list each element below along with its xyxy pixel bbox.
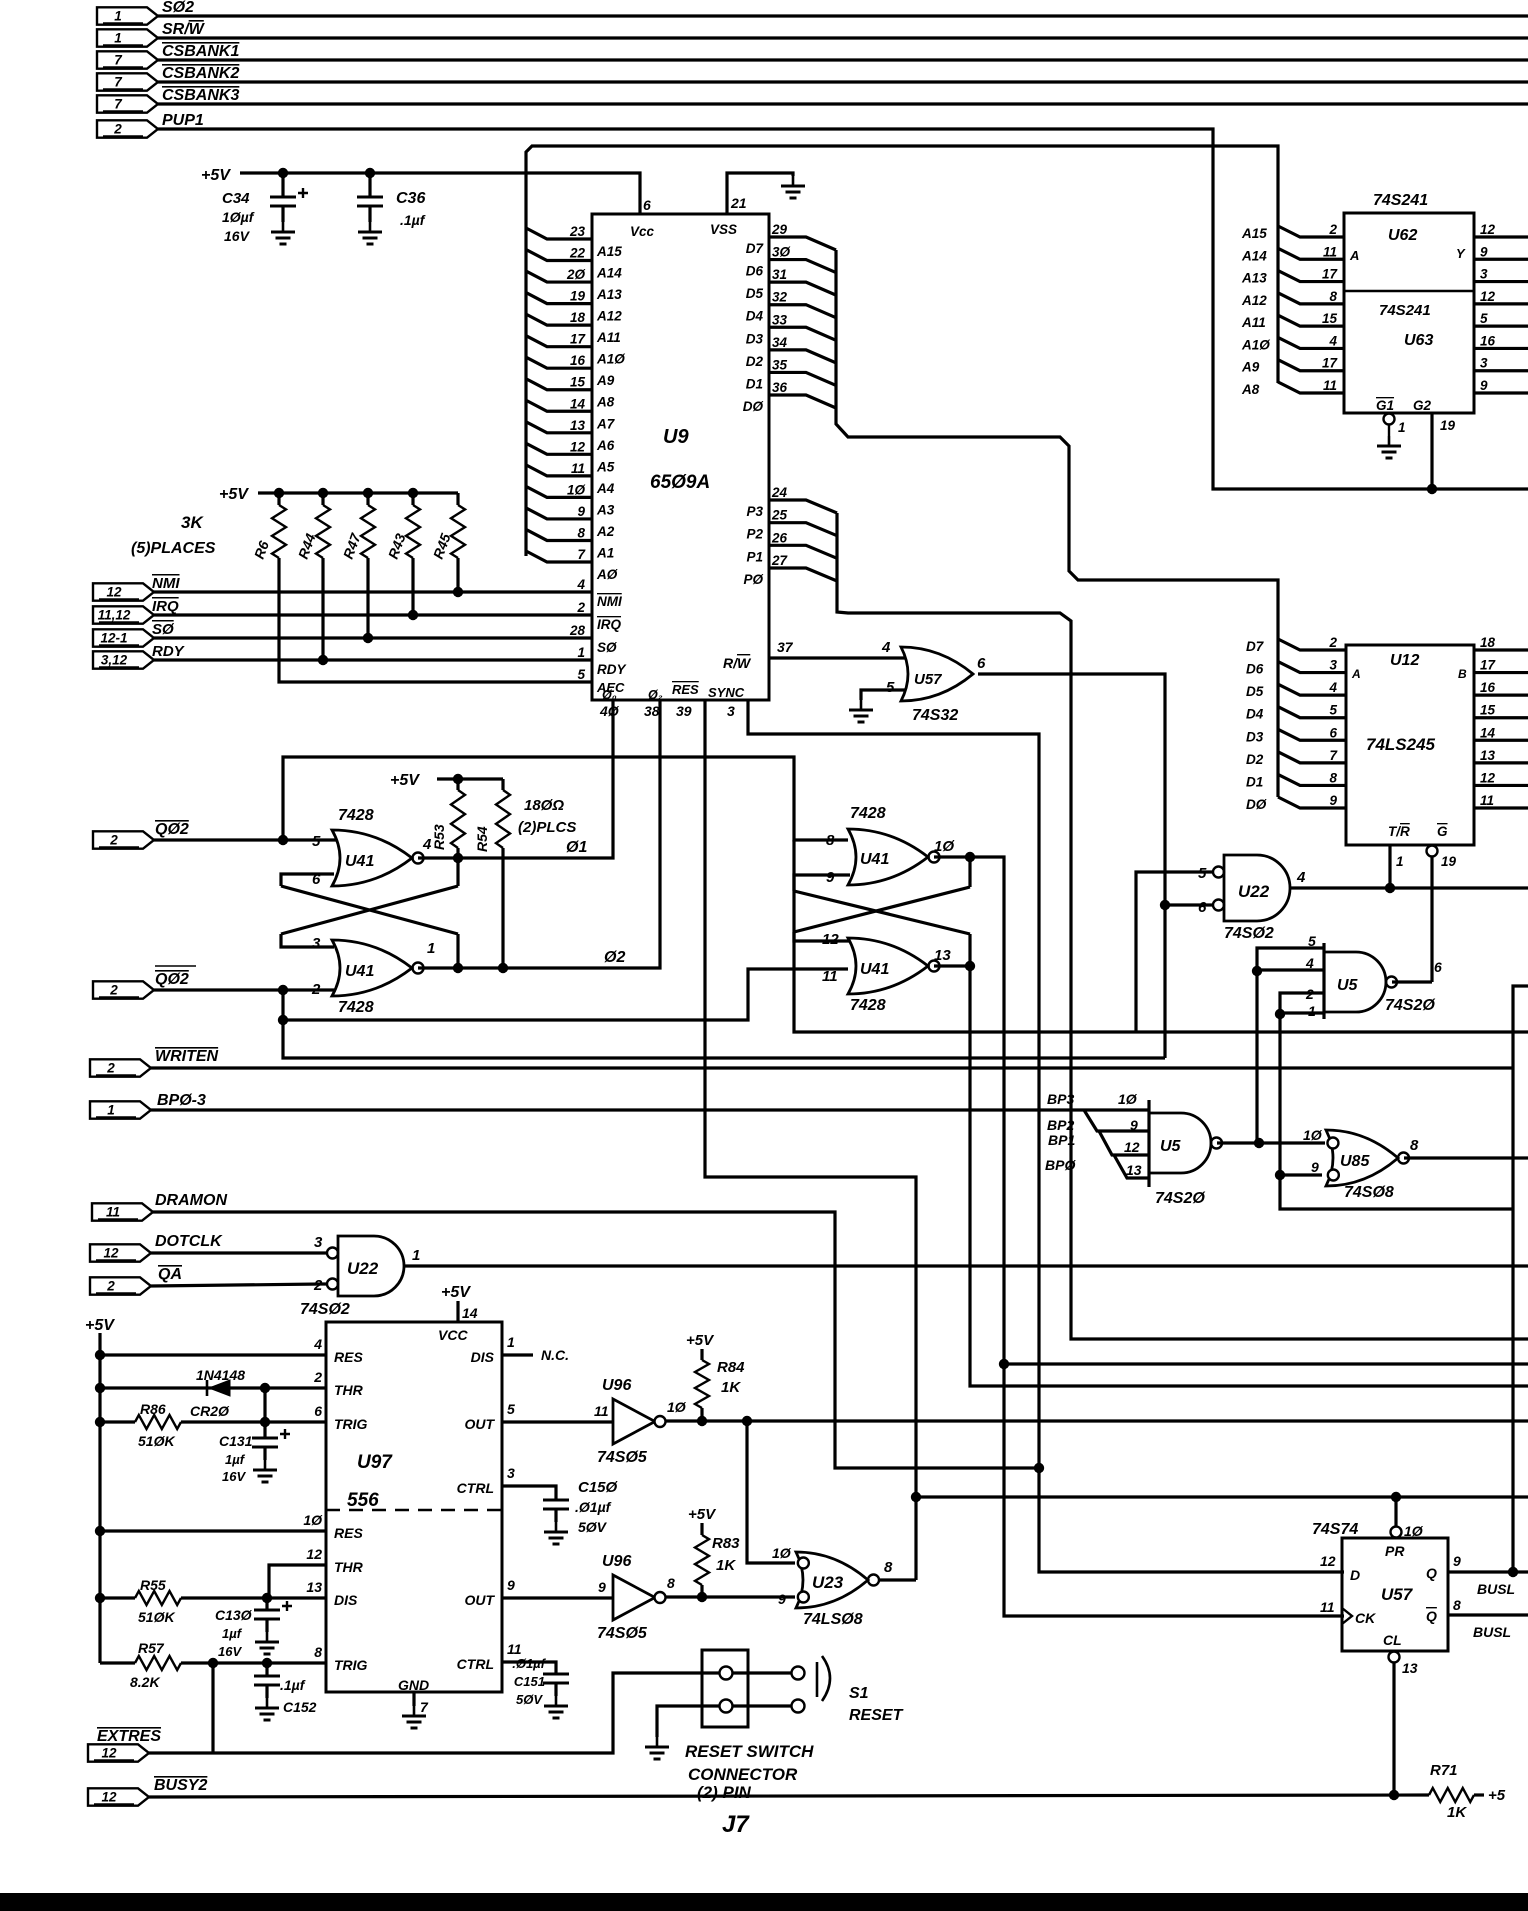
wire THR12 jog [269,1565,326,1598]
svg-text:D3: D3 [746,331,764,346]
svg-text:A14: A14 [596,266,622,281]
connector flag QO2bar [93,981,154,998]
wire C151 gnd stem [554,1683,557,1696]
connector flag DOTCLK [90,1244,151,1261]
NOR gate U41d 7428 [848,938,940,994]
ground below C36 [358,222,382,244]
svg-text:BP1: BP1 [1048,1132,1075,1148]
net label QA [158,1266,182,1283]
net label NMI ctl [152,575,180,592]
wire U62/U63 input A8 pin 11 [1278,382,1344,393]
net label PUP1 [162,112,204,129]
IC U22a refdes [1238,882,1270,901]
svg-text:8: 8 [1329,770,1337,785]
pin name A3 [596,502,615,517]
pin name A2 [596,524,615,539]
junction QO2bar feedback [278,985,288,995]
svg-text:5ØV: 5ØV [578,1519,608,1535]
page edge bar [0,1893,1528,1911]
gate label 74S05 b [597,1625,648,1642]
wire U62/U63 input A1Ø pin 4 [1278,337,1344,348]
svg-text:+5V: +5V [688,1506,717,1523]
resistor R57 8.2K [135,1656,181,1670]
svg-text:U96: U96 [602,1377,631,1394]
wire QO2 feedback to U41c pin8 [283,757,848,840]
wire DIS13 line b [181,1596,326,1599]
wire QA to U22 pin2 [151,1284,328,1286]
svg-text:U57: U57 [1381,1585,1414,1604]
net label BP3 [1047,1091,1074,1107]
pin number 5 556r [507,1401,515,1417]
wire R6 top stub [277,493,280,505]
divider U62/U63 [1344,290,1474,293]
wire RES pin39 route [705,700,916,1580]
IC U5b refdes [1160,1138,1182,1155]
wire QO2bar to U41b pin2 [154,988,336,991]
svg-text:1Ø: 1Ø [1118,1091,1138,1107]
svg-text:NMI: NMI [597,594,622,609]
junction R44/RDY [318,655,328,665]
svg-text:5: 5 [1480,311,1488,326]
IC label 556 [347,1490,379,1511]
net label SØ ctl [152,621,175,638]
svg-text:Y: Y [1456,246,1466,261]
pin number 10 U23 [772,1545,792,1561]
pin number 31 [772,267,787,282]
pin number 9 [826,869,835,886]
wire C36 stem [368,173,371,197]
pin name TRIG 556 [334,1416,368,1432]
wire U9 data bus to U12 [836,250,1278,797]
svg-text:A1: A1 [596,545,614,560]
wire U12 output pin 15 [1474,716,1528,719]
ground C150 [544,1522,568,1544]
label R71 [1430,1762,1458,1779]
wire +5V rail left [98,1333,101,1663]
svg-text:9: 9 [598,1579,606,1595]
svg-text:Q: Q [1426,1565,1437,1581]
junction R45/NMI [453,587,463,597]
svg-text:7428: 7428 [338,807,374,824]
IC label 74LS245 [1366,735,1436,754]
svg-text:+5V: +5V [201,167,231,184]
svg-text:5: 5 [1329,703,1337,718]
net label QO2bar [155,966,196,988]
pin number 12 556 [306,1546,322,1562]
wire TRIG8 line b [181,1661,326,1664]
NOR gate U22a 74S02 [1213,855,1290,921]
capacitor C130 1uf 16V [254,1601,292,1619]
net label IRQ ctl [152,598,179,615]
svg-text:G: G [1437,824,1448,839]
svg-text:16V: 16V [218,1644,242,1659]
svg-text:SR/W: SR/W [162,21,206,38]
label R57 [138,1640,165,1656]
pin name AEC [596,680,625,695]
IC U23 refdes [812,1573,844,1592]
gate label 74S20 b [1155,1190,1205,1207]
svg-text:8.2K: 8.2K [130,1674,160,1690]
net label BUSY2 [154,1777,207,1794]
net label CSBANK2 [162,65,239,82]
svg-text:6: 6 [977,655,986,672]
pin name P2 [746,527,763,542]
pin number 4 556 [313,1336,322,1352]
net label A14 [1241,248,1267,263]
wire +5V pullup rail [258,491,458,494]
power label +5V R84 [686,1332,715,1349]
svg-text:C36: C36 [396,190,425,207]
wire U9 address bus vertical and top run to U62 [526,146,1278,556]
switch terminal bottom [792,1700,805,1713]
pin number 14 [462,1305,478,1321]
net label RDY ctl [152,643,186,660]
pin name RES 556 [334,1349,363,1365]
junction U22 in6 [1160,900,1170,910]
svg-text:S1: S1 [849,1685,869,1702]
label R71 1K [1447,1804,1467,1821]
net label A11 [1241,315,1266,330]
pin number 10 PR [1404,1523,1424,1539]
wire U41a output phi1 [418,700,613,858]
net label BUSL [1477,1581,1515,1597]
gate label 7428 lower [338,999,374,1016]
svg-text:32: 32 [772,290,788,305]
svg-text:A15: A15 [596,244,622,259]
pin name SØ [597,640,617,655]
svg-text:33: 33 [772,312,788,327]
ground at U57 pin5 [849,700,873,722]
NOR gate U41c 7428 [848,829,940,885]
svg-text:D2: D2 [1246,752,1264,767]
svg-text:OUT: OUT [464,1592,495,1608]
svg-text:1Ø: 1Ø [567,482,586,497]
svg-text:J7: J7 [722,1811,750,1838]
pin number 11 ck [1320,1599,1335,1615]
svg-text:3: 3 [1329,658,1337,673]
U12 G pin 19 bubble [1427,846,1438,857]
wire U9 pin 2Ø A13 [526,271,592,282]
connector flag SØ2 (sheet 1) [97,7,158,24]
pin number 34 [772,335,788,350]
svg-text:P3: P3 [746,504,763,519]
gate label 74S02 a [1224,925,1274,942]
pin number 5 [1329,703,1337,718]
svg-text:CSBANK2: CSBANK2 [162,65,239,82]
junction C34 [278,168,288,178]
svg-text:U5: U5 [1337,977,1359,994]
svg-text:Ø2: Ø2 [604,949,625,966]
wire pins45 down to U5b out [1255,971,1258,1143]
pin number 2 [1328,635,1337,650]
pin number 11 [1323,378,1337,393]
wire DOTCLK to U22 pin3 [151,1251,328,1254]
port label B U12 [1458,667,1467,681]
label 2 PIN [697,1783,752,1802]
IC label 74S241 lower [1379,302,1431,319]
pin number 2 556 [313,1369,322,1385]
pin number 16 [1480,333,1496,348]
svg-text:6: 6 [643,197,651,213]
label C34 value [222,209,255,225]
resistor R43 3K [406,505,420,558]
wire U62/U63 output pin 16 [1474,347,1528,350]
IC U41b refdes [345,963,374,980]
connector pin bottom [720,1700,733,1713]
label R54 [474,826,490,852]
power label +5V R83 [688,1506,717,1523]
IC U96a refdes [602,1377,631,1394]
svg-text:8: 8 [1329,289,1337,304]
svg-text:74S74: 74S74 [1312,1521,1358,1538]
svg-text:74S2Ø: 74S2Ø [1155,1190,1205,1207]
pin number 14 [570,396,586,411]
net label QO2 [155,821,189,838]
pin number 16 [570,353,586,368]
svg-text:6: 6 [1198,899,1207,916]
wire U9 pin 23 A15 [526,228,592,239]
svg-text:P2: P2 [746,527,763,542]
junction U23 feed [742,1416,752,1426]
wire U12 input D1 pin 8 [1278,774,1346,785]
net label A1Ø [1241,337,1270,352]
svg-text:13: 13 [1480,748,1496,763]
svg-text:1Øµf: 1Øµf [222,209,255,225]
svg-text:QA: QA [158,1266,182,1283]
label R83 [712,1535,740,1552]
junction G2/PUP1 [1427,484,1437,494]
svg-text:1K: 1K [1447,1804,1467,1821]
label C36 [396,190,425,207]
connector flag QO2 [93,831,154,848]
svg-text:18: 18 [570,310,586,325]
junction rail RES4 [95,1350,105,1360]
wire U9 pin 22 A14 [526,250,592,261]
pin number 6 556 [314,1403,322,1419]
svg-text:1Ø: 1Ø [667,1399,687,1415]
label .1uf [280,1677,306,1693]
svg-text:(2)PLCS: (2)PLCS [518,819,576,836]
svg-text:B: B [1458,667,1467,681]
svg-text:17: 17 [1480,658,1497,673]
wire R71 to +5 [1474,1793,1484,1796]
svg-text:QØ2: QØ2 [155,971,189,988]
svg-text:WRITEN: WRITEN [155,1048,219,1065]
svg-text:A6: A6 [596,438,615,453]
svg-text:P1: P1 [746,549,763,564]
svg-text:8: 8 [1410,1137,1419,1154]
wire U5b output [1217,1141,1325,1144]
wire U41b pin3 stub [281,934,334,947]
wire U9 pin 26 P1 [769,545,837,558]
wire QO2bar branch to U41d pin11 [283,969,848,1020]
capacitor C131 1uf 16V [252,1429,290,1447]
pin number 4 [1328,680,1337,695]
pin number 11 [822,968,838,985]
wire C131 vert [263,1388,266,1422]
wire RDY to U9 [154,658,592,661]
junction y1497 [911,1492,921,1502]
label J7 [722,1811,750,1838]
junction Q net [1508,1567,1518,1577]
pin number 12 U5b [1124,1139,1140,1155]
wire U9 pin 17 A1Ø [526,336,592,347]
svg-text:1K: 1K [716,1557,736,1574]
IC U9 6509A body [592,214,769,700]
label 50V [578,1519,608,1535]
junction extres [208,1658,218,1668]
net label D3 [1246,729,1264,744]
label C130 16V [218,1644,242,1659]
wire THR2 line [100,1386,326,1389]
connector flag WRITEN [90,1059,151,1076]
svg-text:15: 15 [1322,311,1338,326]
svg-text:DØ: DØ [743,399,764,414]
wire QO2 to U41a pin5 [154,838,336,841]
svg-text:2: 2 [313,1369,322,1385]
svg-text:74S2Ø: 74S2Ø [1385,997,1435,1014]
svg-text:4: 4 [1296,869,1306,886]
wire CTRL11 to C151 [502,1662,556,1674]
pin number 12 [1480,770,1496,785]
svg-text:A13: A13 [596,287,622,302]
svg-text:3: 3 [507,1465,515,1481]
resistor R44 3K [316,505,330,558]
svg-text:4: 4 [313,1336,322,1352]
pin number 2 [1305,986,1314,1002]
wire U62/U63 output pin 12 [1474,235,1528,238]
pin name phi2 [648,688,663,702]
divider dashed 556 [326,1509,502,1512]
pin number 38 [644,703,660,719]
wire U12 output pin 16 [1474,694,1528,697]
wire pin bottom to switch [733,1704,791,1707]
net label BP0 [1045,1157,1076,1173]
svg-text:U85: U85 [1340,1153,1370,1170]
pin name VCC [438,1327,468,1343]
svg-text:19: 19 [570,289,586,304]
svg-text:8: 8 [1453,1597,1461,1613]
connector flag CSBANK3 (sheet 7) [97,95,158,112]
wire U62/U63 output pin 9 [1474,391,1528,394]
capacitor C151 .01uf 50V [543,1674,569,1683]
wire cross couple D [794,891,970,934]
svg-text:RES: RES [672,682,699,697]
pin number 8 556 [314,1644,322,1660]
wire U9 pin 9 A2 [526,508,592,519]
pin number 12 [822,931,839,948]
resistor R71 1K [1429,1788,1474,1802]
svg-text:16V: 16V [222,1469,246,1484]
pin name A15 [596,244,622,259]
svg-text:+5V: +5V [686,1332,715,1349]
pin number 33 [772,312,788,327]
pin number 12 [570,439,586,454]
wire pins12 down to U85 in9 [1280,1014,1513,1209]
pin number 23 [569,224,586,239]
pin name PØ [743,572,763,587]
svg-text:RDY: RDY [597,662,627,677]
wire Q out [1448,1570,1528,1573]
svg-text:14: 14 [1480,725,1496,740]
svg-text:3: 3 [312,935,321,952]
svg-text:4: 4 [1328,333,1337,348]
connector flag QA [90,1277,151,1294]
pin name D2 [746,354,764,369]
wire U12 input D5 pin 4 [1278,684,1346,695]
wire PUP1 to G2 net [158,129,1528,489]
svg-text:D7: D7 [746,241,765,256]
IC U85 refdes [1340,1153,1370,1170]
resistor R45 3K [451,505,465,558]
pin number 35 [772,357,788,372]
wire Vss to ground [727,173,793,214]
wire TRIG8 line a [100,1661,135,1664]
label R86 [140,1401,166,1417]
label C131 16V [222,1469,246,1484]
wire SR/W bus [158,36,1528,39]
svg-text:T/R: T/R [1388,824,1410,839]
wire U12 output pin 18 [1474,648,1528,651]
svg-text:12: 12 [1480,222,1496,237]
svg-text:4Ø: 4Ø [599,703,620,719]
wire R84 bottom [700,1408,703,1421]
svg-text:SYNC: SYNC [708,685,745,700]
IC U96b refdes [602,1553,631,1570]
wire U12 input D3 pin 6 [1278,729,1346,740]
label C131 [219,1433,253,1449]
svg-text:1: 1 [412,1247,420,1264]
svg-text:.Ø1µf: .Ø1µf [575,1499,612,1515]
wire C131 gnd stem [263,1447,266,1460]
svg-text:RDY: RDY [152,643,186,660]
wire U41c output [934,857,1344,1616]
pin number 6 [1329,725,1337,740]
pin name P3 [746,504,763,519]
svg-text:C15Ø: C15Ø [578,1479,619,1496]
pin name A4 [596,481,615,496]
pin number 10 inv [667,1399,687,1415]
svg-text:THR: THR [334,1382,364,1398]
net label SR/W [162,21,206,38]
pin name CTRL 556r [457,1656,494,1672]
ground 556 [402,1706,426,1728]
wire U12 input D2 pin 7 [1278,752,1346,763]
pin number 2 [311,981,321,998]
pin number 25 [771,508,788,523]
wire C131 stem [263,1422,266,1438]
label (5)PLACES [131,540,216,557]
pin number 13 [1402,1660,1418,1676]
power label +5V latch [390,772,420,789]
wire CL down [1392,1662,1395,1795]
wire U9 pin 1Ø A3 [526,486,592,497]
svg-text:+5V: +5V [219,486,249,503]
junction QO2 feedback [278,835,288,845]
pin number 40 [599,703,620,719]
pin number 5 [577,667,585,682]
pin number 27 [771,553,789,568]
wire U62/U63 input A12 pin 8 [1278,293,1344,304]
wire U12 G to U5 output [1430,856,1433,982]
svg-text:R86: R86 [140,1401,166,1417]
pin number 12 [1320,1553,1336,1569]
svg-text:VCC: VCC [438,1327,468,1343]
pin number 4 [881,639,891,656]
wire C130 gnd stem [265,1619,268,1632]
resistor R84 1K [695,1360,709,1408]
svg-text:DIS: DIS [471,1349,495,1365]
